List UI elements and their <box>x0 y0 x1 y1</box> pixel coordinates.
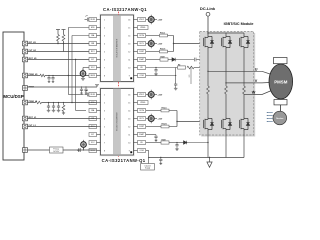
isolation axis red dash top <box>118 12 120 15</box>
wire U2 Rg-off <box>146 126 161 128</box>
U2 left pin 7 stub <box>97 142 101 144</box>
svg-text:VCE: VCE <box>189 74 191 77</box>
wire phase leg1 <box>207 49 209 86</box>
U1 left pin 7 stub <box>97 67 101 69</box>
IGBT Q1L <box>203 117 213 131</box>
U2 right box 7 <box>138 141 146 145</box>
wire COM U2 <box>146 150 149 152</box>
svg-text:13: 13 <box>128 118 130 120</box>
primary supply box <box>50 147 64 153</box>
svg-text:COM: COM <box>139 75 144 77</box>
svg-text:12: 12 <box>128 126 130 128</box>
wire VE U1 <box>146 67 178 69</box>
U1 right box OUTL <box>138 42 146 46</box>
IC U1 shadow <box>99 14 134 83</box>
wire phase out U <box>208 70 254 72</box>
svg-text:3: 3 <box>104 110 105 112</box>
U1 left box EN1 <box>89 26 97 30</box>
junction vbus2 <box>71 102 72 103</box>
junction emitter bus <box>209 157 210 158</box>
U1 left pin 8 stub <box>97 75 101 77</box>
U2 right pin 9 stub <box>134 150 138 152</box>
PMSM motor <box>269 64 293 99</box>
IGBT Q3H <box>239 35 249 49</box>
wire RST_H1 <box>28 59 97 61</box>
U2 left box 4 <box>89 117 97 121</box>
wire PWM_H1 <box>28 75 41 77</box>
svg-text:CLMP: CLMP <box>139 51 145 53</box>
IGBT Q2H <box>221 35 231 49</box>
U2 right box 2 <box>138 101 149 105</box>
capacitor C_blk U1 <box>194 58 196 62</box>
junction VE U1 <box>207 67 208 68</box>
wire phase out W <box>244 94 254 96</box>
MCU pin INT_H1 <box>23 41 28 46</box>
svg-text:OUTL: OUTL <box>139 118 144 120</box>
wire U to motor <box>254 71 272 74</box>
U1 right box VE <box>138 66 146 70</box>
U2 right pin 16 stub <box>134 94 138 96</box>
IGBT Q3L <box>239 117 249 131</box>
junction phase 1 <box>207 71 208 72</box>
svg-text:11: 11 <box>128 134 130 136</box>
wire vbus1 <box>68 27 96 29</box>
junction vbus1 pwm <box>68 75 69 76</box>
wire Rg_off U2 out <box>169 126 177 128</box>
U2 right box 3 <box>138 109 146 113</box>
wire COM drop U1 <box>175 68 177 84</box>
capacitor C_e U2 <box>175 143 178 147</box>
capacitor C_vdd2 <box>86 93 88 97</box>
wire emitter leg3 <box>243 131 245 158</box>
junction C_s U1 <box>155 67 156 68</box>
svg-text:2: 2 <box>104 102 105 104</box>
capacitor C_s U1 <box>154 68 157 72</box>
wire leg1 lower <box>207 94 209 117</box>
gate bus U2 <box>176 111 178 127</box>
U2 left pin 1 stub <box>97 94 101 96</box>
svg-text:VREG: VREG <box>140 27 146 29</box>
isolation barrier stripe U2 <box>113 89 120 155</box>
svg-text:11: 11 <box>128 59 130 61</box>
VDD1 rail tick B <box>62 29 66 31</box>
svg-text:ISOLATION BARRIER: ISOLATION BARRIER <box>116 38 119 58</box>
svg-text:GND1: GND1 <box>90 75 95 77</box>
junction phase 2 <box>225 82 226 83</box>
resolver body <box>273 111 287 125</box>
MCU pin PWM <box>23 86 28 91</box>
MCU/DSP block <box>3 32 24 160</box>
wire COM U1 <box>146 75 176 77</box>
wire vbus3 <box>75 60 77 111</box>
U2 right pin 10 stub <box>134 142 138 144</box>
U1 left box VCC <box>89 66 97 70</box>
U1 right box VREG <box>138 26 149 30</box>
U2 left box 3 <box>89 109 97 113</box>
U1 right box DSAT <box>138 58 146 62</box>
resistor Rg_on U2 <box>161 109 169 112</box>
svg-text:5: 5 <box>104 126 105 128</box>
svg-text:VREG: VREG <box>140 102 146 104</box>
isolated supply T3 <box>146 94 148 96</box>
wire PWM_L1b <box>28 102 36 104</box>
U1 left pin 1 stub <box>97 19 101 21</box>
wire collector top leg3 <box>243 33 245 35</box>
svg-text:6: 6 <box>104 134 105 136</box>
U1 right pin 11 stub <box>134 59 138 61</box>
svg-text:5V/3.3V: 5V/3.3V <box>53 151 60 153</box>
svg-text:OUTH: OUTH <box>139 35 145 37</box>
wire bottom rail <box>149 157 208 159</box>
U2 right pin 12 stub <box>134 126 138 128</box>
ground main <box>207 158 212 168</box>
DC-Link terminal <box>206 12 210 16</box>
module shadow <box>201 33 255 137</box>
U1 left box FLT <box>89 58 97 62</box>
VDD1 rail tick A <box>56 29 60 31</box>
svg-text:VDD1: VDD1 <box>90 94 95 96</box>
resistor R_boot U1 <box>160 58 168 61</box>
wire V to motor <box>254 82 270 84</box>
U2 left box 1 <box>89 93 97 97</box>
wire desat U2 <box>146 142 161 144</box>
U1 right pin 14 stub <box>134 35 138 37</box>
wire desat U1 b <box>175 59 194 61</box>
ground V1 <box>81 77 85 81</box>
U2 right pin 14 stub <box>134 110 138 112</box>
wire RST_L1 <box>28 118 97 120</box>
svg-text:PMSM: PMSM <box>274 79 288 84</box>
isolated supply T4 <box>146 118 148 120</box>
resistor Rpu2 <box>62 35 65 42</box>
IC U2 shadow <box>99 87 134 156</box>
svg-text:16: 16 <box>128 94 130 96</box>
svg-text:8: 8 <box>104 75 105 77</box>
IC U1 body <box>101 15 134 82</box>
wire phase out V <box>226 82 254 84</box>
junction Rpu1 <box>57 43 58 44</box>
U1 left pin 6 stub <box>97 59 101 61</box>
wire emitter leg1 <box>207 131 209 158</box>
svg-text:14: 14 <box>128 35 130 37</box>
svg-text:DC-Link: DC-Link <box>200 6 216 11</box>
wire phase leg2 <box>225 49 227 86</box>
svg-text:CA-IS3217ANW-Q1: CA-IS3217ANW-Q1 <box>103 7 147 12</box>
U1 right pin 12 stub <box>134 51 138 53</box>
wire desat U2 a <box>169 142 184 144</box>
U2 left pin 3 stub <box>97 110 101 112</box>
svg-text:GND1: GND1 <box>90 150 95 152</box>
junction C_e U2 <box>176 142 177 143</box>
resistor Rg_on U1 <box>160 34 168 37</box>
svg-text:OUTL: OUTL <box>139 43 144 45</box>
U2 left pin 2 stub <box>97 102 101 104</box>
svg-text:V: V <box>255 79 258 83</box>
svg-text:Resolver: Resolver <box>276 118 283 120</box>
wire U2 pin6 <box>146 134 156 136</box>
svg-text:+15V: +15V <box>158 119 163 121</box>
wire supply out <box>63 149 97 151</box>
wire phase leg3 <box>243 49 245 86</box>
isolation axis red dash bottom <box>118 155 120 158</box>
U1 left pin 2 stub <box>97 27 101 29</box>
supply source V2 <box>83 140 85 142</box>
wire PWM_L1a <box>68 94 83 96</box>
emitter bus <box>208 157 244 159</box>
isolation axis red dash mid <box>118 82 120 88</box>
shunt squiggle leg3 <box>243 86 246 94</box>
U1 right pin 16 stub <box>134 19 138 21</box>
junction desat U1 <box>207 59 208 60</box>
resistor R_e box U1 <box>178 66 186 69</box>
svg-text:ISOLATION BARRIER: ISOLATION BARRIER <box>116 112 119 132</box>
U1 right box COM <box>138 74 146 78</box>
wire VE U1 b <box>194 67 208 69</box>
ground V2 <box>77 149 80 152</box>
U2 left box 2 <box>89 101 97 105</box>
U2 right box 6 <box>138 133 146 137</box>
isolated supply T1 <box>146 19 148 21</box>
U1 left box VDD1 <box>89 18 97 22</box>
capacitor CL2 <box>52 104 55 108</box>
pin1 dot U2 <box>130 151 132 153</box>
junction R_vl <box>63 102 64 103</box>
svg-text:CLMP: CLMP <box>139 126 145 128</box>
U2 left pin 5 stub <box>97 126 101 128</box>
svg-text:13: 13 <box>128 43 130 45</box>
isolated supply T2 <box>146 43 148 45</box>
U2 right pin 15 stub <box>134 102 138 104</box>
svg-text:7: 7 <box>104 142 105 144</box>
U1 right pin 15 stub <box>134 27 138 29</box>
wire VDD1 pin7 <box>83 67 97 69</box>
wire MCU pin5 <box>28 86 98 88</box>
U2 right box 4 <box>138 117 146 121</box>
wire leg2 lower <box>225 94 227 117</box>
shunt squiggle leg2 <box>225 86 228 94</box>
ground up pin5 <box>95 85 99 87</box>
resistor Rg_off U1 <box>160 50 168 53</box>
wire U1 Rg-off <box>146 51 160 53</box>
svg-text:4: 4 <box>104 43 105 45</box>
PMSM terminal box <box>274 58 288 64</box>
svg-text:W: W <box>252 91 256 95</box>
IGBT Q1H <box>203 35 213 49</box>
U2 left pin 8 stub <box>97 150 101 152</box>
U1 right box VDD2 <box>138 18 146 22</box>
svg-text:VDD1: VDD1 <box>90 19 95 21</box>
wire Rg_off out <box>168 51 174 53</box>
wire U2 Rg-on <box>146 110 161 112</box>
capacitor C_vdd1 <box>85 19 88 21</box>
resistor R_e U1 <box>187 66 194 69</box>
U2 left pin 6 stub <box>97 134 101 136</box>
capacitor C_ps <box>78 148 80 152</box>
svg-text:15: 15 <box>128 102 130 104</box>
U1 left pin 5 stub <box>97 51 101 53</box>
svg-text:10: 10 <box>128 67 130 69</box>
U2 left pin 4 stub <box>97 118 101 120</box>
wire supply <box>28 149 50 151</box>
svg-text:U: U <box>255 67 258 71</box>
U1 left pin 3 stub <box>97 35 101 37</box>
U2 right box 8 <box>138 149 146 153</box>
svg-text:1: 1 <box>104 94 105 96</box>
diode D_desat U1 <box>172 58 175 61</box>
resolver lead 3 <box>268 118 273 120</box>
U1 right box CLMP <box>138 50 146 54</box>
svg-text:+15V: +15V <box>158 95 163 97</box>
MCU pin RST_L1 <box>23 116 28 121</box>
shunt squiggle leg1 <box>207 86 210 94</box>
svg-text:1: 1 <box>104 19 105 21</box>
capacitor C_p2 <box>85 86 86 87</box>
wire Rg_on U2 out <box>169 110 177 112</box>
svg-text:Supply: Supply <box>145 168 150 170</box>
wire FLT_L1 <box>28 126 97 128</box>
resistor R_vl <box>62 105 65 112</box>
MCU pin FLT_H1 <box>23 49 28 54</box>
U1 right box OUTH <box>138 34 146 38</box>
junction CL1 <box>48 102 49 103</box>
svg-text:MCU/DSP: MCU/DSP <box>3 94 23 99</box>
secondary supply box <box>141 164 155 171</box>
IGBT Q2L <box>221 117 231 131</box>
U1 left box GND1 <box>89 74 97 78</box>
junction vbus3 <box>75 59 76 60</box>
U1 right pin 13 stub <box>134 43 138 45</box>
U1 left box INB <box>89 42 97 46</box>
wire W to motor <box>254 91 272 95</box>
svg-text:COM: COM <box>139 150 144 152</box>
junction COM U1 <box>175 75 176 76</box>
supply source V1 <box>82 69 84 71</box>
svg-text:+15V: +15V <box>158 44 163 46</box>
wire leg3 lower <box>243 94 245 117</box>
svg-text:5: 5 <box>104 51 105 53</box>
wire INT_H1 <box>28 43 97 45</box>
U2 left box 7 <box>89 141 97 145</box>
svg-text:+15V: +15V <box>158 20 163 22</box>
resolver lead 4 <box>268 121 273 123</box>
svg-text:2: 2 <box>104 27 105 29</box>
MCU pin PWM_L1 <box>23 100 28 105</box>
junction gate U2 <box>176 121 177 122</box>
MCU pin VDD <box>23 148 28 153</box>
capacitor C_rail <box>159 158 162 162</box>
wire vbus2 <box>72 35 97 37</box>
U2 right box 5 <box>138 125 146 129</box>
junction desat U2 <box>207 142 208 143</box>
MCU pin FLT_L1 <box>23 124 28 129</box>
junction Rpu2 <box>63 43 64 44</box>
U1 left pin 4 stub <box>97 43 101 45</box>
wire VCE drop U1 <box>190 68 192 85</box>
svg-text:16: 16 <box>128 19 130 21</box>
capacitor C_p1 <box>81 86 82 87</box>
wire emitter leg2 <box>225 131 227 158</box>
wire desat U2 b <box>187 142 208 144</box>
junction CL3 <box>58 102 59 103</box>
wire desat U1 <box>146 59 160 61</box>
module top rail <box>208 32 244 34</box>
wire U1 Rg-on <box>146 35 160 37</box>
capacitor CL3 <box>57 104 60 108</box>
U2 right box 1 <box>138 93 146 97</box>
svg-text:12: 12 <box>128 51 130 53</box>
svg-text:8: 8 <box>104 150 105 152</box>
U2 right pin 13 stub <box>134 118 138 120</box>
U2 left box 6 <box>89 133 97 137</box>
svg-text:7: 7 <box>104 67 105 69</box>
svg-text:3: 3 <box>104 35 105 37</box>
svg-text:EN1: EN1 <box>91 27 95 29</box>
U2 left box 8 <box>89 149 97 153</box>
svg-text:4: 4 <box>104 118 105 120</box>
svg-text:9: 9 <box>129 150 130 152</box>
svg-text:6: 6 <box>104 59 105 61</box>
wire collector top leg1 <box>207 16 209 35</box>
wire Rg_on out <box>168 35 174 37</box>
junction V2 <box>83 149 84 150</box>
U1 right pin 9 stub <box>134 75 138 77</box>
junction rail leg1 <box>207 32 208 33</box>
capacitor C_e U1 <box>174 82 177 86</box>
resistor R_pwmh <box>40 74 45 77</box>
resolver lead 2 <box>268 115 273 117</box>
MCU pin RST_H1 <box>23 57 28 62</box>
capacitor CL1 <box>47 104 50 108</box>
wire collector top leg2 <box>225 33 227 35</box>
pin1 dot U1 <box>130 77 132 79</box>
svg-text:14: 14 <box>128 110 130 112</box>
U1 right pin 10 stub <box>134 67 138 69</box>
isolation barrier stripe U1 <box>113 15 120 81</box>
capacitor C_f U2 <box>154 135 157 139</box>
U2 right pin 11 stub <box>134 134 138 136</box>
svg-text:10: 10 <box>128 142 130 144</box>
capacitor C_h1 <box>48 75 49 76</box>
shaft <box>280 105 282 111</box>
svg-text:OUTH: OUTH <box>139 110 145 112</box>
wire desat U1 a <box>168 59 172 61</box>
resistor Rg_off U2 <box>161 125 169 128</box>
PMSM bottom bracket <box>274 100 287 105</box>
U1 left box INA <box>89 34 97 38</box>
gate bus U1 <box>173 36 175 52</box>
U2 left box 5 <box>89 125 97 129</box>
svg-text:IGBT/SiC Module: IGBT/SiC Module <box>224 22 254 26</box>
svg-text:15: 15 <box>128 27 130 29</box>
U1 left box RDY <box>89 50 97 54</box>
svg-text:CA-IS3217ANW-Q1: CA-IS3217ANW-Q1 <box>102 158 146 163</box>
resistor Rpu1 <box>57 35 60 42</box>
junction CL2 <box>53 102 54 103</box>
wire V2 <box>83 148 85 151</box>
svg-text:9: 9 <box>129 75 130 77</box>
diode D_desat U2 <box>184 141 187 144</box>
capacitor C_h2 <box>52 75 53 76</box>
junction gate U1 <box>173 43 174 44</box>
svg-text:VDD2: VDD2 <box>139 19 144 21</box>
resistor R_pwml <box>36 101 42 104</box>
resolver lead 1 <box>268 112 273 114</box>
MCU pin PWM_H1 <box>23 73 28 78</box>
junction bottom rail <box>148 157 149 158</box>
IC U2 body <box>101 89 134 156</box>
IGBT module box <box>200 32 254 136</box>
svg-text:VDD2: VDD2 <box>139 94 144 96</box>
